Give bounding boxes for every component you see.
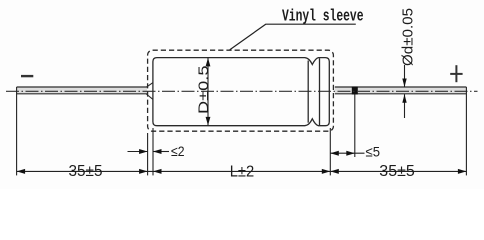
weld mark on right lead	[352, 87, 358, 95]
arrow 35±5 left end	[17, 169, 26, 174]
extension line lead-tip-right	[465, 87, 467, 175]
svg-text:35±5: 35±5	[379, 163, 415, 180]
centerline axis	[6, 90, 478, 92]
plus polarity mark	[450, 65, 462, 82]
bottom dimension line	[17, 170, 467, 172]
extension line body-right	[329, 128, 331, 175]
arrow L±2 left	[153, 169, 162, 174]
dimension ≤2	[128, 143, 185, 159]
arrow L±2 right	[322, 169, 331, 174]
svg-text:≤5: ≤5	[366, 144, 381, 160]
svg-text:L±2: L±2	[230, 163, 255, 180]
dimension Ød±0.05	[400, 8, 417, 118]
svg-text:≤2: ≤2	[171, 143, 185, 159]
extension line sleeve-left	[147, 133, 149, 175]
leader line	[230, 24, 356, 50]
arrow 35±5 right at body	[330, 169, 339, 174]
extension line lead-tip-left	[16, 87, 18, 175]
vinyl sleeve (dashed)	[148, 50, 334, 131]
lead right	[335, 87, 467, 94]
lead left	[17, 87, 147, 94]
arrow 35±5 left at sleeve	[139, 169, 148, 174]
minus polarity mark	[21, 75, 33, 77]
dimension ≤5	[330, 144, 380, 160]
arrow 35±5 right end	[458, 169, 467, 174]
capacitor body (can)	[153, 58, 329, 126]
dimension D±0.5	[195, 58, 211, 126]
svg-text:D±0.5: D±0.5	[195, 65, 211, 114]
extension line lead-measure-right	[354, 94, 356, 157]
svg-text:Ød±0.05: Ød±0.05	[400, 8, 417, 66]
svg-text:Vinyl sleeve: Vinyl sleeve	[282, 7, 364, 26]
extension line body-left	[152, 128, 154, 175]
svg-text:35±5: 35±5	[69, 163, 103, 180]
left end cone	[146, 83, 153, 100]
crimp groove verticals	[307, 61, 309, 123]
